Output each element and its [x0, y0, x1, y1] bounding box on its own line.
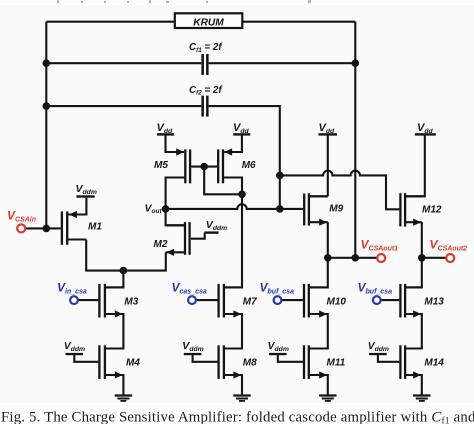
transistor M12 — [399, 193, 442, 226]
wire M2 gate bias — [191, 233, 205, 239]
terminal VCSAin — [7, 209, 36, 233]
svg-text:M5: M5 — [154, 160, 168, 171]
wire M12 drain to out2 — [421, 222, 423, 258]
wire M13 gate — [381, 299, 400, 301]
wire M10 gate — [282, 299, 303, 301]
node dot out1-rail — [352, 254, 360, 262]
wire Cf1 left — [46, 62, 201, 64]
terminal Vin_csa — [57, 281, 87, 304]
power Vddm M14 — [368, 340, 389, 355]
wire Vdd stub M12 — [406, 135, 425, 196]
node dot A — [120, 267, 128, 275]
node dot mirror gates — [200, 163, 208, 171]
wire M4 gate bias — [74, 355, 98, 362]
power Vddm M11 — [268, 340, 289, 355]
transistor M7 — [217, 284, 257, 318]
ground M4 — [115, 396, 132, 401]
wire M1 drain to node A — [86, 240, 123, 271]
wire M8 source to ground — [224, 375, 242, 395]
wire left input rail — [45, 22, 47, 229]
node dot M6 drain — [238, 191, 246, 199]
transistor M14 — [399, 345, 444, 379]
wire M6 drain lead — [224, 178, 242, 195]
wire M10 source down to M11 drain — [309, 314, 328, 349]
svg-text:KRUM: KRUM — [193, 18, 224, 29]
transistor M2 — [154, 222, 191, 256]
transistor M4 — [98, 345, 140, 379]
node dot Cf2-Vout — [276, 205, 284, 213]
node dot Vout — [162, 205, 170, 213]
power Vddm M1 — [76, 183, 97, 198]
svg-text:M9: M9 — [329, 203, 343, 214]
wire Vdd stub M9 — [310, 135, 328, 196]
transistor M6 — [217, 148, 256, 183]
node dot rail-Cf2 — [43, 102, 51, 110]
power Vdd M5 — [157, 122, 175, 136]
svg-text:M2: M2 — [154, 239, 168, 250]
wire Vout rail with hop — [166, 204, 303, 209]
wire M6 drain to M7 drain — [225, 194, 242, 287]
wire M4 source to ground — [105, 375, 124, 395]
terminal VCSAout2 — [430, 238, 468, 263]
ground M14 — [413, 396, 430, 401]
terminal Vbuf_csa M10 — [260, 281, 295, 304]
wire M14 source to ground — [405, 375, 422, 395]
wire out2 — [422, 257, 446, 259]
node dot M9 drain out1 — [324, 254, 332, 262]
wire right feedback rail — [354, 22, 356, 258]
ground M11 — [319, 396, 336, 401]
node dot out2 — [418, 254, 426, 262]
svg-text:M4: M4 — [126, 358, 140, 369]
terminal VCSAout1 — [361, 238, 399, 263]
transistor M11 — [303, 345, 346, 379]
svg-text:Cf1 = 2f: Cf1 = 2f — [189, 42, 223, 54]
node dot input — [43, 225, 51, 233]
node dot Cf2-x — [276, 172, 284, 180]
node dot rail-Cf1 — [43, 59, 51, 67]
wire Cf2 right — [209, 106, 280, 209]
wire M7 gate — [196, 299, 218, 301]
wire M14 gate bias — [378, 355, 399, 362]
transistor M5 — [154, 148, 191, 183]
wire out1 — [328, 257, 377, 259]
decorative top cropped text remnants — [57, 0, 311, 3]
wire out1 to M10 drain — [310, 258, 328, 288]
power Vddm M4 — [64, 340, 85, 355]
wire top feedback — [46, 21, 355, 23]
svg-text:Fig. 5. The Charge Sensitive: Fig. 5. The Charge Sensitive Amplifier: … — [1, 409, 474, 424]
wire M11 source to ground — [309, 375, 328, 395]
power Vddm M8 — [182, 340, 203, 355]
wire M3 gate — [78, 299, 98, 301]
wire node X to M12 gate with hops — [280, 171, 400, 210]
wire Cf1 right — [209, 62, 356, 64]
wire M2 source to node A — [123, 252, 165, 270]
wire mirror gate node — [191, 167, 242, 195]
power Vdd M12 — [415, 122, 436, 136]
wire M13 source down to M14 drain — [405, 314, 422, 349]
svg-text:M10: M10 — [327, 297, 347, 308]
wire M7 source down to M8 drain — [224, 314, 242, 349]
wire out2 to M13 drain — [406, 258, 422, 288]
svg-text:M7: M7 — [243, 297, 257, 308]
svg-text:M3: M3 — [124, 297, 138, 308]
svg-text:Cf2 = 2f: Cf2 = 2f — [189, 85, 223, 97]
transistor M8 — [217, 345, 257, 379]
transistor M3 — [98, 284, 138, 318]
capacitor Cf2 — [189, 85, 223, 117]
transistor M10 — [303, 284, 347, 318]
svg-text:M1: M1 — [88, 222, 102, 233]
node dot Cf1-right rail — [352, 59, 360, 67]
wire M11 gate bias — [278, 355, 303, 362]
wire M5 drain to Vout — [166, 178, 186, 209]
KRUM feedback block — [175, 13, 243, 28]
power Vddm M2 — [205, 219, 228, 234]
svg-text:M14: M14 — [424, 358, 444, 369]
power Vdd M6 — [233, 122, 250, 136]
power Vdd M9 — [319, 122, 338, 136]
wire Vddm stub M1 — [70, 198, 87, 215]
capacitor Cf1 — [189, 42, 223, 75]
terminal Vbuf_csa M13 — [358, 281, 393, 304]
svg-text:M8: M8 — [243, 358, 257, 369]
transistor M13 — [399, 284, 444, 318]
wire Cf2 left — [46, 105, 201, 107]
wire M2 drain from Vout — [166, 209, 184, 225]
wire Vdd stub M5 — [166, 134, 184, 152]
wire M3 source down to M4 drain — [105, 314, 124, 349]
svg-text:M6: M6 — [242, 160, 256, 171]
wire node A to M3 drain — [106, 271, 123, 288]
terminal Vcas_csa — [172, 281, 207, 304]
svg-text:M12: M12 — [422, 204, 442, 215]
wire M1 gate — [26, 227, 61, 229]
wire M9 drain to out1 — [327, 222, 329, 258]
svg-text:M13: M13 — [424, 297, 444, 308]
transistor M1 — [61, 211, 103, 245]
wire M8 gate bias — [193, 355, 218, 362]
transistor M9 — [303, 193, 344, 226]
ground M8 — [233, 396, 250, 401]
wire Vdd stub M6 — [225, 134, 242, 152]
svg-text:M11: M11 — [327, 358, 346, 369]
